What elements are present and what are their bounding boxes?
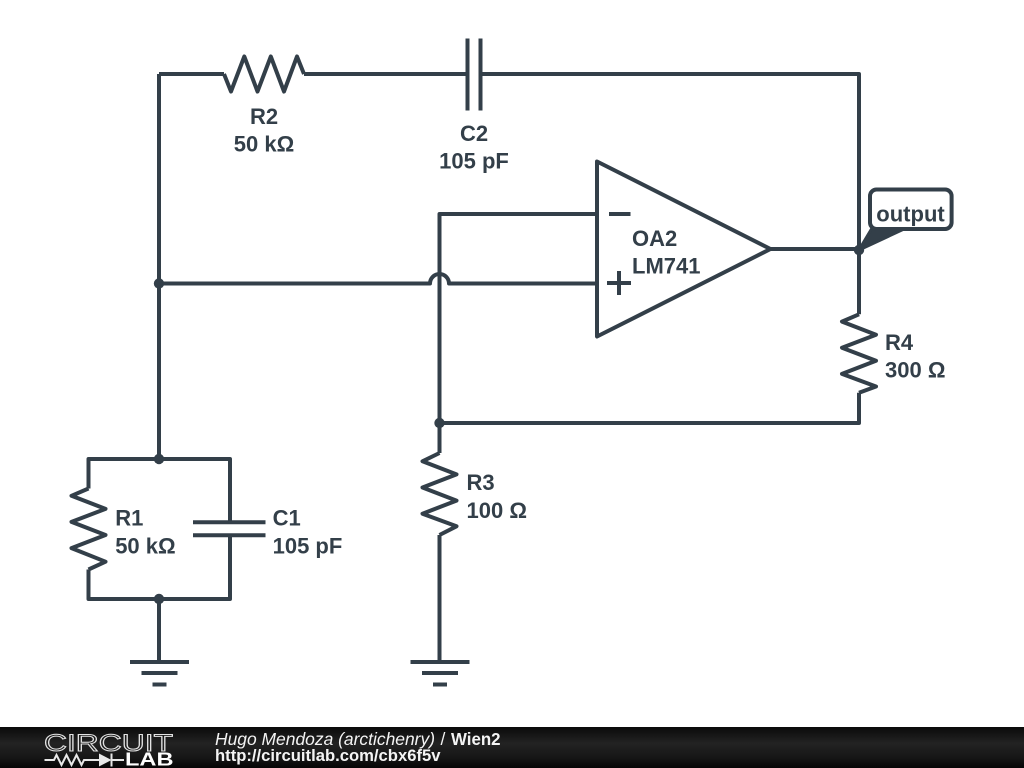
svg-text:/: / bbox=[441, 729, 446, 749]
svg-text:output: output bbox=[876, 201, 945, 226]
svg-text:LAB: LAB bbox=[125, 749, 174, 768]
svg-text:Wien2: Wien2 bbox=[451, 729, 501, 749]
svg-text:R3: R3 bbox=[467, 470, 495, 495]
svg-text:http://circuitlab.com/cbx6f5v: http://circuitlab.com/cbx6f5v bbox=[215, 746, 441, 765]
svg-text:OA2: OA2 bbox=[632, 226, 677, 251]
svg-text:C1: C1 bbox=[273, 506, 301, 531]
svg-text:R1: R1 bbox=[115, 506, 143, 531]
svg-text:C2: C2 bbox=[460, 121, 488, 146]
svg-text:100 Ω: 100 Ω bbox=[467, 498, 527, 523]
svg-text:300 Ω: 300 Ω bbox=[885, 358, 945, 383]
svg-text:105 pF: 105 pF bbox=[273, 534, 343, 559]
svg-text:R4: R4 bbox=[885, 330, 914, 355]
svg-text:105 pF: 105 pF bbox=[439, 149, 509, 174]
svg-text:50 kΩ: 50 kΩ bbox=[115, 534, 175, 559]
svg-text:50 kΩ: 50 kΩ bbox=[234, 132, 294, 157]
svg-text:LM741: LM741 bbox=[632, 254, 700, 279]
svg-text:R2: R2 bbox=[250, 104, 278, 129]
